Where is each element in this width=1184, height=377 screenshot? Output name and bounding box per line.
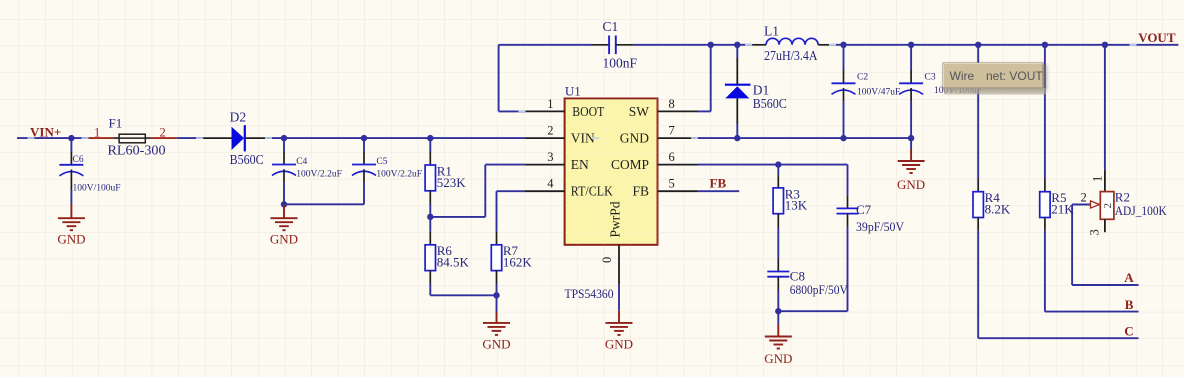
wire SW node to D1 — [711, 44, 738, 46]
junction D1 bottom — [734, 135, 740, 141]
wire fuse to D2 — [177, 137, 204, 139]
junction R4 top — [975, 42, 981, 48]
svg-text:GND: GND — [270, 232, 298, 247]
wire B horizontal — [1045, 311, 1139, 313]
fuse F1 — [114, 134, 151, 143]
wire BOOT vertical — [498, 45, 500, 112]
capacitor C6 — [59, 165, 83, 176]
svg-text:0: 0 — [600, 257, 614, 263]
svg-text:2: 2 — [1081, 191, 1087, 205]
svg-text:GND: GND — [764, 351, 792, 366]
capacitor C3 pin bottom — [910, 88, 912, 101]
wire FB stub — [698, 190, 740, 192]
svg-text:F1: F1 — [109, 116, 123, 131]
capacitor C7 pin top — [847, 195, 849, 208]
inductor L1 pin left — [752, 44, 766, 46]
wire R4 to C row — [977, 231, 979, 338]
capacitor C6 pin bottom — [70, 170, 72, 191]
wire SW vertical — [710, 45, 712, 112]
wire C8 to GND node — [777, 290, 779, 311]
wiper arrow of R2 — [1091, 201, 1100, 208]
wire D1 to L1 — [737, 44, 752, 46]
wire to R1 — [429, 138, 431, 152]
inductor L1 — [766, 38, 818, 45]
wire to C6 — [70, 138, 72, 152]
wire EN vertical — [484, 165, 486, 217]
wire node to GND — [777, 311, 779, 324]
ground GND under C6 — [58, 218, 85, 230]
capacitor C8 — [767, 272, 789, 277]
pin 4 RT/CLK of U1 — [525, 190, 565, 192]
svg-text:6800pF/50V: 6800pF/50V — [790, 282, 849, 297]
svg-text:8: 8 — [669, 97, 675, 111]
svg-text:B560C: B560C — [230, 152, 264, 167]
svg-text:100nF: 100nF — [603, 56, 638, 71]
wire VIN+ net segment — [17, 137, 88, 139]
svg-text:B560C: B560C — [753, 96, 787, 111]
resistor R6 pin bottom — [429, 271, 431, 284]
wire VOUT rail — [830, 44, 1179, 46]
junction C5 — [361, 135, 367, 141]
svg-text:39pF/50V: 39pF/50V — [856, 219, 905, 234]
svg-text:C4: C4 — [296, 157, 307, 167]
resistor R3 pin top — [777, 175, 779, 188]
capacitor C4 — [272, 165, 296, 176]
wire BOOT stub — [499, 110, 525, 112]
wire R7 to bottom node — [496, 284, 498, 296]
svg-text:C: C — [1124, 323, 1133, 338]
capacitor C8 pin top — [777, 259, 779, 272]
resistor R1 pin bottom — [429, 191, 431, 204]
ground GND under C4 C5 — [271, 218, 298, 230]
resistor R3 — [773, 188, 783, 214]
resistor R4 — [973, 192, 983, 218]
svg-text:100V/2.2uF: 100V/2.2uF — [296, 170, 342, 180]
junction C4 GND — [281, 201, 287, 207]
wire C7 column — [847, 165, 849, 196]
resistor R3 pin bottom — [777, 214, 779, 227]
svg-text:2: 2 — [547, 124, 553, 138]
svg-text:VIN: VIN — [571, 131, 595, 146]
svg-text:Wire: Wire — [950, 69, 975, 83]
wire R6 top — [429, 217, 431, 232]
capacitor C3 — [899, 83, 923, 94]
svg-text:COMP: COMP — [611, 157, 649, 172]
diode D2 cathode pin — [245, 137, 272, 139]
capacitor C7 pin bottom — [847, 214, 849, 227]
wire node to GND — [496, 295, 498, 311]
resistor R4 pin bottom — [977, 218, 979, 231]
wire R3 top — [777, 165, 779, 175]
svg-text:GND: GND — [57, 232, 85, 247]
svg-text:L1: L1 — [764, 24, 779, 39]
junction C4 — [281, 135, 287, 141]
svg-text:GND: GND — [620, 131, 649, 146]
junction C3 bottom — [908, 135, 914, 141]
op-amp U1 TPS54360 body — [565, 99, 658, 245]
junction R5 top — [1042, 42, 1048, 48]
wire to C2 — [843, 45, 845, 70]
svg-text:GND: GND — [482, 336, 510, 351]
junction C8 C7 GND — [775, 308, 781, 314]
capacitor C4 pin top — [283, 152, 285, 165]
svg-text:C1: C1 — [603, 19, 619, 34]
junction R1 R6 EN — [427, 214, 433, 220]
power port GND stub at C2 C3 — [910, 149, 912, 161]
capacitor C6 pin top — [70, 152, 72, 165]
capacitor C1 pin right — [616, 44, 633, 46]
diode D2 — [232, 125, 245, 151]
wire D1 top — [736, 45, 738, 58]
junction C2 bottom — [840, 135, 846, 141]
svg-text:21K: 21K — [1051, 202, 1074, 217]
svg-text:FB: FB — [710, 175, 727, 190]
inductor L1 pin right — [818, 44, 830, 46]
pin 0 PwrPd of U1 — [618, 245, 620, 285]
svg-text:1: 1 — [1091, 176, 1105, 182]
pin 6 COMP of U1 — [658, 164, 698, 166]
wire EN to pin3 — [485, 164, 524, 166]
pin 7 GND of U1 — [658, 137, 698, 139]
wire BOOT top to C1 — [499, 44, 592, 46]
svg-text:523K: 523K — [437, 175, 467, 190]
wire R5 to B row — [1044, 231, 1046, 312]
diode D1 cathode pin — [736, 58, 738, 85]
svg-text:84.5K: 84.5K — [437, 255, 470, 270]
wire R7 column top — [496, 191, 498, 232]
ground GND under C2 C3 — [898, 161, 925, 173]
svg-text:R2: R2 — [1115, 190, 1130, 205]
svg-text:U1: U1 — [565, 83, 581, 98]
svg-text:VIN+: VIN+ — [30, 125, 61, 140]
svg-text:5: 5 — [669, 177, 675, 191]
junction SW top — [708, 42, 714, 48]
wire R6 to bottom node — [429, 284, 431, 296]
svg-text:GND: GND — [605, 336, 633, 351]
wire EN horizontal — [430, 216, 485, 218]
wire R4 column — [977, 45, 979, 179]
wire D1 to GND rail — [736, 124, 738, 138]
resistor R7 pin top — [496, 232, 498, 245]
svg-text:EN: EN — [571, 157, 589, 172]
svg-text:2: 2 — [1102, 203, 1114, 209]
svg-text:FB: FB — [632, 184, 649, 199]
resistor R1 pin top — [429, 152, 431, 165]
wire marks — [28, 137, 35, 139]
power port GND stub at C8 — [777, 324, 779, 336]
svg-text:net: VOUT: net: VOUT — [986, 69, 1043, 83]
power port GND stub at C6 — [70, 204, 72, 218]
resistor R4 pin top — [977, 179, 979, 192]
pin 8 SW of U1 — [658, 110, 698, 112]
wire C7 down — [847, 227, 849, 311]
pin 5 FB of U1 — [658, 190, 698, 192]
pin 1 BOOT of U1 — [525, 110, 565, 112]
wire C5 to C4 — [284, 203, 364, 205]
svg-text:C7: C7 — [856, 202, 872, 217]
wire red segment fuse left — [88, 137, 114, 139]
svg-text:C2: C2 — [857, 72, 868, 82]
svg-text:100V/47uF: 100V/47uF — [857, 88, 900, 98]
junction R2 top — [1102, 42, 1108, 48]
capacitor C2 pin top — [843, 70, 845, 83]
resistor R7 pin bottom — [496, 271, 498, 284]
wire C3 to GND rail — [910, 101, 912, 138]
potentiometer R2 pin 3 — [1104, 219, 1106, 232]
svg-text:PwrPd: PwrPd — [608, 201, 623, 237]
capacitor C1 — [609, 36, 616, 55]
power port GND stub at C4 — [283, 204, 285, 218]
junction C3 top — [908, 42, 914, 48]
resistor R1 — [425, 165, 435, 191]
svg-text:RT/CLK: RT/CLK — [571, 184, 613, 199]
pin 3 EN of U1 — [525, 164, 565, 166]
wire R2 column — [1104, 45, 1106, 170]
svg-text:RL60-300: RL60-300 — [108, 143, 166, 158]
capacitor C7 — [837, 208, 859, 213]
wire PwrPd to GND — [618, 285, 620, 311]
svg-text:162K: 162K — [503, 255, 533, 270]
wire C1 to SW node — [633, 44, 711, 46]
svg-text:D2: D2 — [230, 110, 247, 125]
svg-text:C5: C5 — [376, 157, 387, 167]
svg-text:8.2K: 8.2K — [985, 202, 1011, 217]
wire D2 to U1 VIN — [271, 137, 524, 139]
capacitor C3 pin top — [910, 70, 912, 83]
svg-text:27uH/3.4A: 27uH/3.4A — [764, 48, 818, 63]
wire to C4 — [283, 138, 285, 152]
svg-text:A: A — [1124, 270, 1134, 285]
wire A horizontal — [1072, 284, 1138, 286]
svg-text:100V/100uF: 100V/100uF — [73, 184, 121, 194]
resistor R7 — [491, 245, 501, 271]
svg-text:VOUT: VOUT — [1138, 30, 1176, 45]
wire RT/CLK to pin4 — [497, 190, 525, 192]
junction C6 — [68, 135, 74, 141]
ground GND under C8 — [765, 337, 792, 349]
power port GND stub at U1 — [618, 311, 620, 323]
wire C horizontal — [978, 337, 1138, 339]
capacitor C5 — [352, 165, 376, 176]
pin 2 VIN of U1 — [525, 137, 565, 139]
resistor R6 — [425, 245, 435, 271]
svg-text:SW: SW — [629, 104, 650, 119]
power port GND stub at R6 R7 — [496, 312, 498, 323]
resistor R5 — [1040, 192, 1050, 218]
tooltip Wire net VOUT — [943, 63, 1043, 88]
capacitor C2 — [832, 83, 856, 94]
wire to C3 — [910, 45, 912, 70]
potentiometer R2 pin 1 — [1104, 170, 1106, 192]
ground GND under R6 R7 — [483, 323, 510, 335]
wire C2 to GND rail — [843, 101, 845, 138]
ground GND under U1 — [606, 323, 633, 335]
junction D1 top — [734, 42, 740, 48]
diode D1 anode pin — [736, 98, 738, 124]
svg-text:TPS54360: TPS54360 — [565, 286, 614, 301]
wire GND pin7 rail — [698, 137, 912, 139]
svg-text:4: 4 — [547, 177, 554, 191]
wire C5 down — [363, 182, 365, 204]
resistor R5 pin bottom — [1044, 218, 1046, 231]
svg-text:BOOT: BOOT — [572, 104, 605, 119]
wire red segment fuse right — [151, 137, 177, 139]
svg-text:3: 3 — [547, 150, 553, 164]
potentiometer R2 — [1100, 192, 1114, 220]
diode D1 — [725, 85, 751, 99]
capacitor C1 pin left — [591, 44, 609, 46]
svg-text:C6: C6 — [73, 155, 84, 165]
junction R1 — [427, 135, 433, 141]
resistor R6 pin top — [429, 232, 431, 245]
wire R3 to C8 — [777, 227, 779, 259]
svg-text:GND: GND — [897, 177, 925, 192]
diode D2 anode pin — [204, 137, 232, 139]
svg-text:1: 1 — [94, 125, 100, 139]
svg-text:1: 1 — [547, 97, 553, 111]
svg-text:3: 3 — [1088, 229, 1102, 235]
svg-text:7: 7 — [669, 124, 675, 138]
junction C2 top — [840, 42, 846, 48]
svg-text:13K: 13K — [785, 198, 808, 213]
wire to C5 — [363, 138, 365, 152]
svg-text:C3: C3 — [925, 72, 936, 82]
resistor R5 pin top — [1044, 179, 1046, 192]
wire C7 to C8 node — [778, 310, 847, 312]
wire wiper vertical — [1071, 205, 1073, 286]
capacitor C4 pin bottom — [283, 169, 285, 182]
capacitor C2 pin bottom — [843, 88, 845, 101]
wire C6 to GND — [70, 190, 72, 204]
svg-text:2: 2 — [160, 125, 166, 139]
junction R6 R7 GND — [493, 292, 499, 298]
wire C3 node down — [910, 138, 912, 149]
capacitor C5 pin bottom — [363, 169, 365, 182]
wire wiper horizontal — [1072, 204, 1090, 206]
wire SW pin to vertical — [698, 110, 711, 112]
wire bottom R6 to R7 — [430, 294, 496, 296]
junction R3 COMP — [775, 161, 781, 167]
wire C4 to GND — [283, 182, 285, 204]
svg-text:B: B — [1125, 297, 1134, 312]
svg-text:100V/2.2uF: 100V/2.2uF — [376, 170, 422, 180]
wire COMP — [698, 164, 848, 166]
wire R1 to node — [429, 204, 431, 217]
tooltip shadow dim strip — [944, 88, 1046, 95]
svg-text:ADJ_100K: ADJ_100K — [1115, 204, 1167, 218]
svg-text:6: 6 — [669, 150, 675, 164]
capacitor C5 pin top — [363, 152, 365, 165]
wire R5 column — [1044, 45, 1046, 179]
capacitor C8 pin bottom — [777, 277, 779, 290]
